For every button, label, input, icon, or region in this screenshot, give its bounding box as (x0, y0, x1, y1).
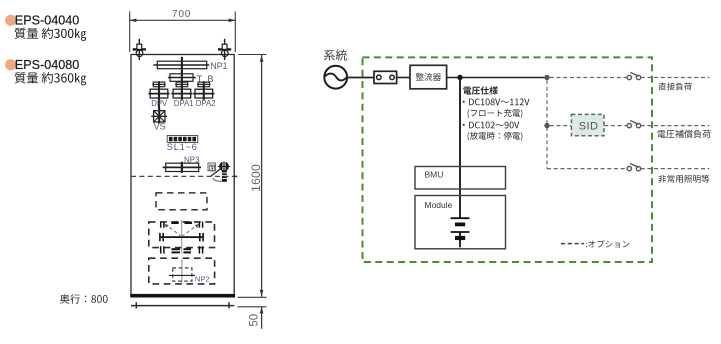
svg-text:DPV: DPV (151, 99, 168, 108)
svg-text:50: 50 (249, 314, 261, 327)
svg-text:NP3: NP3 (184, 156, 200, 165)
svg-text:SID: SID (579, 121, 599, 133)
svg-text:DPA1: DPA1 (174, 99, 194, 108)
svg-text:DPA2: DPA2 (196, 99, 216, 108)
svg-text:SL1~6: SL1~6 (167, 142, 198, 152)
svg-text:VS: VS (154, 121, 166, 131)
svg-text:NP2: NP2 (195, 275, 210, 284)
svg-text:1600: 1600 (249, 164, 263, 192)
svg-text:EPS-04040: EPS-04040 (15, 14, 79, 28)
svg-text:EPS-04080: EPS-04080 (15, 58, 79, 72)
svg-text:BMU: BMU (425, 170, 444, 180)
svg-text:Module: Module (425, 200, 453, 210)
svg-text:T_B: T_B (197, 74, 214, 84)
svg-text:NP1: NP1 (210, 61, 227, 71)
svg-text:700: 700 (172, 9, 191, 20)
